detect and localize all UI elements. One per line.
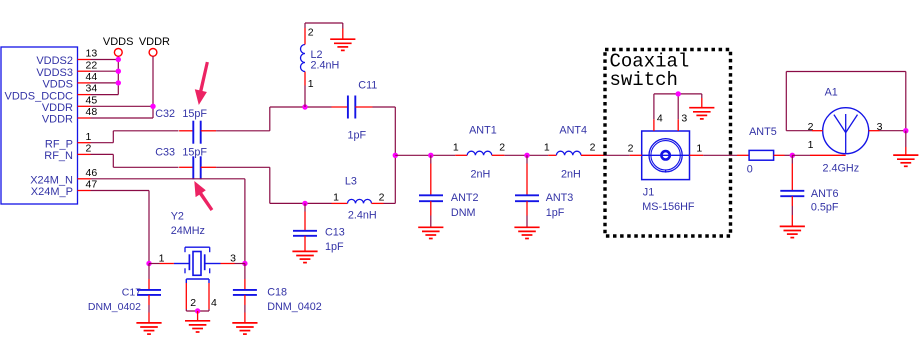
svg-text:C17: C17 bbox=[122, 287, 141, 299]
svg-text:1: 1 bbox=[808, 139, 814, 151]
J1 pin 2 bbox=[628, 143, 642, 156]
svg-text:MS-156HF: MS-156HF bbox=[642, 201, 695, 213]
svg-text:ANT1: ANT1 bbox=[469, 125, 497, 137]
A1 pin 3 wire bbox=[869, 130, 906, 132]
wire C33 to node bbox=[216, 167, 270, 203]
junction J1 top bbox=[676, 91, 681, 96]
svg-text:VDDR: VDDR bbox=[139, 36, 170, 48]
coaxial switch dotted box bbox=[605, 50, 731, 237]
crystal Y2 bbox=[149, 211, 245, 276]
svg-text:VDDS3: VDDS3 bbox=[36, 67, 73, 79]
junction VDDS pin22 bbox=[116, 69, 121, 74]
svg-text:24MHz: 24MHz bbox=[171, 225, 205, 237]
junction L3 node bbox=[302, 201, 307, 206]
svg-text:VDDS_DCDC: VDDS_DCDC bbox=[5, 90, 74, 102]
junction ANT6 node bbox=[790, 153, 795, 158]
svg-text:C18: C18 bbox=[267, 287, 287, 299]
svg-text:4: 4 bbox=[657, 112, 663, 124]
wire ANT5 to node bbox=[785, 154, 793, 156]
svg-text:2nH: 2nH bbox=[561, 169, 581, 181]
junction output node bbox=[393, 153, 398, 158]
capacitor C33 bbox=[155, 146, 216, 179]
ground crystal bbox=[185, 311, 210, 332]
svg-text:RF_P: RF_P bbox=[45, 138, 73, 150]
svg-text:C13: C13 bbox=[325, 227, 345, 239]
junction ANT3 node bbox=[524, 153, 529, 158]
connector J1 bbox=[642, 131, 695, 213]
resistor ANT5 bbox=[737, 126, 785, 176]
svg-text:VDDS: VDDS bbox=[42, 79, 73, 91]
svg-text:46: 46 bbox=[86, 167, 98, 179]
wire X24M_N bbox=[91, 179, 245, 264]
ground L2 bbox=[330, 29, 355, 51]
junction VDDS pin13 bbox=[116, 57, 121, 62]
capacitor ANT3 bbox=[515, 155, 573, 227]
J1 pin 4 bbox=[654, 94, 663, 131]
svg-text:DNM_0402: DNM_0402 bbox=[267, 301, 322, 313]
power symbol VDDS bbox=[103, 36, 134, 56]
svg-text:13: 13 bbox=[86, 48, 98, 60]
svg-text:0.5pF: 0.5pF bbox=[811, 201, 839, 213]
svg-text:2: 2 bbox=[190, 297, 196, 309]
svg-text:2: 2 bbox=[590, 142, 596, 154]
svg-text:1pF: 1pF bbox=[325, 241, 344, 253]
A1 pin 2 wire bbox=[786, 130, 822, 132]
ground ANT3 bbox=[514, 227, 539, 238]
IC block bbox=[1, 47, 78, 204]
wire RF_N bbox=[91, 154, 179, 167]
svg-text:15pF: 15pF bbox=[182, 146, 207, 158]
pin 46 X24M_N bbox=[30, 167, 97, 187]
svg-text:3: 3 bbox=[681, 112, 687, 124]
svg-text:2: 2 bbox=[86, 143, 92, 155]
wire VDDS bus bbox=[91, 56, 119, 94]
wire VDDR bus bbox=[91, 56, 154, 118]
svg-text:C33: C33 bbox=[155, 146, 175, 158]
capacitor C32 bbox=[155, 108, 216, 144]
svg-text:L3: L3 bbox=[345, 176, 357, 188]
svg-text:34: 34 bbox=[86, 83, 98, 95]
wire output vertical bbox=[394, 107, 396, 203]
inductor ANT4 bbox=[544, 125, 604, 181]
svg-text:2: 2 bbox=[499, 142, 505, 154]
pin 2 RF_N bbox=[44, 143, 91, 163]
capacitor C13 bbox=[293, 203, 345, 253]
svg-text:VDDR: VDDR bbox=[42, 114, 73, 126]
svg-text:15pF: 15pF bbox=[182, 108, 207, 120]
pin 22 VDDS3 bbox=[36, 59, 97, 79]
annotation arrow C32 bbox=[195, 62, 209, 105]
inductor L2 bbox=[301, 23, 340, 107]
annotation arrow C33 bbox=[194, 181, 213, 211]
capacitor ANT2 bbox=[419, 155, 479, 227]
svg-text:1: 1 bbox=[86, 131, 92, 143]
wire C32 to node bbox=[216, 107, 270, 131]
ground A1 bbox=[893, 131, 918, 167]
svg-text:C11: C11 bbox=[358, 80, 377, 92]
wire node to A1 bbox=[792, 154, 845, 156]
svg-text:J1: J1 bbox=[643, 187, 654, 199]
wire X24M_P bbox=[91, 191, 150, 264]
svg-text:A1: A1 bbox=[825, 86, 838, 98]
svg-text:45: 45 bbox=[86, 94, 98, 106]
pin 45 VDDR bbox=[42, 94, 98, 114]
svg-text:2nH: 2nH bbox=[471, 169, 491, 181]
ground J1 bbox=[689, 94, 714, 119]
pin 47 X24M_P bbox=[31, 179, 98, 199]
svg-text:1pF: 1pF bbox=[546, 207, 565, 219]
antenna A1 bbox=[808, 86, 883, 174]
svg-text:0: 0 bbox=[747, 163, 753, 175]
wire A1 loop bbox=[786, 72, 906, 131]
svg-text:VDDS: VDDS bbox=[103, 36, 134, 48]
svg-text:C32: C32 bbox=[155, 108, 175, 120]
wire RF_P bbox=[91, 131, 179, 143]
label Coaxial switch bbox=[610, 51, 690, 92]
svg-text:ANT6: ANT6 bbox=[811, 188, 839, 200]
svg-text:1: 1 bbox=[696, 143, 702, 155]
capacitor C17 bbox=[88, 264, 161, 313]
junction crystal pin3 bbox=[242, 261, 247, 266]
inductor ANT1 bbox=[453, 125, 505, 181]
svg-text:1: 1 bbox=[308, 78, 314, 90]
svg-text:RF_N: RF_N bbox=[44, 150, 73, 162]
junction A1 ground node bbox=[903, 128, 908, 133]
svg-text:22: 22 bbox=[86, 59, 98, 71]
pin 1 RF_P bbox=[45, 131, 92, 151]
junction VDDR pin45 bbox=[150, 104, 155, 109]
junction L2 node bbox=[302, 104, 307, 109]
svg-text:ANT2: ANT2 bbox=[451, 192, 479, 204]
ground ANT6 bbox=[780, 215, 805, 238]
svg-text:48: 48 bbox=[86, 106, 98, 118]
svg-text:1: 1 bbox=[544, 142, 550, 154]
wire L3 row bbox=[270, 202, 396, 204]
svg-text:1pF: 1pF bbox=[348, 130, 367, 142]
junction ANT2 node bbox=[428, 153, 433, 158]
J1 pin 3 bbox=[678, 94, 687, 131]
ground C13 bbox=[292, 251, 317, 262]
junction VDDS pin44 bbox=[116, 80, 121, 85]
svg-text:ANT4: ANT4 bbox=[559, 125, 587, 137]
J1 pin 1 bbox=[690, 143, 704, 156]
svg-text:1: 1 bbox=[453, 142, 459, 154]
svg-text:2.4GHz: 2.4GHz bbox=[823, 162, 860, 174]
svg-text:1: 1 bbox=[333, 192, 339, 204]
svg-text:2.4nH: 2.4nH bbox=[311, 60, 340, 72]
capacitor ANT6 bbox=[780, 155, 839, 215]
ground C18 bbox=[232, 313, 257, 335]
inductor L3 bbox=[332, 176, 385, 222]
svg-text:47: 47 bbox=[86, 179, 98, 191]
svg-text:VDDR: VDDR bbox=[42, 102, 73, 114]
svg-text:DNM_0402: DNM_0402 bbox=[88, 301, 141, 313]
wire L2 to ground bbox=[305, 23, 343, 29]
pin 34 VDDS_DCDC bbox=[5, 83, 98, 103]
svg-text:4: 4 bbox=[211, 297, 217, 309]
svg-text:VDDS2: VDDS2 bbox=[36, 55, 73, 67]
junction crystal pin1 bbox=[146, 261, 151, 266]
ground C17 bbox=[136, 313, 161, 335]
wire main RF row bbox=[395, 154, 629, 156]
svg-text:2: 2 bbox=[379, 192, 385, 204]
svg-text:X24M_N: X24M_N bbox=[30, 175, 73, 187]
svg-text:1: 1 bbox=[159, 252, 165, 264]
ground ANT2 bbox=[418, 227, 443, 238]
wire J1 to ANT5 bbox=[703, 154, 737, 156]
capacitor C18 bbox=[233, 264, 322, 313]
wire C11 row bbox=[270, 106, 396, 108]
pin 13 VDDS2 bbox=[36, 48, 97, 68]
svg-text:DNM: DNM bbox=[451, 207, 476, 219]
svg-text:ANT3: ANT3 bbox=[546, 192, 574, 204]
capacitor C11 bbox=[332, 80, 378, 142]
pin 44 VDDS bbox=[42, 71, 97, 91]
svg-text:2: 2 bbox=[308, 27, 314, 39]
pin 48 VDDR bbox=[42, 106, 98, 126]
power symbol VDDR bbox=[139, 36, 170, 56]
svg-text:Y2: Y2 bbox=[171, 211, 184, 223]
svg-text:switch: switch bbox=[610, 69, 678, 91]
svg-text:ANT5: ANT5 bbox=[749, 126, 777, 138]
junction crystal ground bbox=[195, 308, 200, 313]
svg-text:2: 2 bbox=[628, 143, 634, 155]
svg-text:3: 3 bbox=[230, 252, 236, 264]
svg-text:X24M_P: X24M_P bbox=[31, 186, 73, 198]
crystal case pins 2 4 bbox=[186, 279, 217, 311]
svg-text:44: 44 bbox=[86, 71, 98, 83]
wire J1 top bbox=[654, 93, 702, 95]
svg-text:2.4nH: 2.4nH bbox=[348, 210, 377, 222]
